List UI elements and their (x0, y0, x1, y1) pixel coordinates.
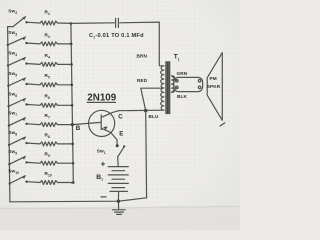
wire Sw10 to R10 (28, 181, 40, 184)
wire R10 to right bus (58, 182, 74, 184)
junction row 6 on right bus (71, 123, 74, 126)
resistor R5 (40, 83, 58, 87)
wire battery to bottom wire (117, 191, 119, 201)
transformer T1 core (165, 61, 170, 114)
wire base lead (from row 7 bus junction) (72, 122, 100, 124)
capacitor C1 (115, 18, 117, 27)
switch Sw5 blade (8, 78, 25, 86)
switch Sw7 blade (9, 118, 26, 126)
wire Sw2 to R2 (28, 21, 40, 24)
wire Sw5 to R5 (28, 83, 40, 86)
transistor emitter lead with arrow (102, 128, 117, 144)
wire Sw1 to battery (117, 157, 120, 167)
wire Sw7 to R7 (28, 123, 40, 126)
terminal right top (198, 80, 201, 83)
resistor R7 (40, 123, 58, 127)
wire Sw3 to R3 (28, 42, 40, 45)
resistor R2 (40, 21, 58, 25)
stray mark below speaker (220, 123, 225, 126)
junction switch Sw6 pivot on left bus (7, 105, 9, 107)
wire Sw6 to R6 (28, 104, 40, 107)
wire R3 to right bus (58, 43, 72, 45)
switch Sw2 blade (13, 17, 26, 27)
right resistor bus wire (71, 23, 73, 183)
svg-text:BRN: BRN (137, 54, 148, 59)
ground symbol (118, 201, 120, 209)
junction row 2 on right bus (70, 43, 73, 46)
switch Sw3 blade (8, 37, 26, 45)
junction row 9 on right bus (72, 181, 75, 184)
svg-text:BLU: BLU (149, 114, 159, 119)
wire R2 to right bus (58, 22, 71, 24)
transformer T1 secondary winding (172, 76, 175, 93)
wire R7 to right bus (58, 124, 73, 126)
wire R8 to right bus (58, 143, 73, 145)
transformer T1 primary winding (161, 66, 164, 110)
switch Sw5 contact (25, 83, 27, 85)
wire RED tap (141, 88, 162, 198)
left bus wire (8, 27, 10, 202)
junction switch Sw8 pivot on left bus (8, 144, 10, 146)
transistor base bar (100, 115, 102, 130)
battery B1 (108, 166, 128, 168)
speaker PM SPKR cone (207, 53, 222, 121)
switch Sw4 blade (8, 58, 25, 66)
switch Sw1 blade (118, 147, 124, 157)
switch Sw9 blade (9, 156, 25, 164)
junction switch Sw4 pivot on left bus (7, 64, 9, 66)
resistor R9 (40, 161, 58, 165)
switch Sw10 contact (25, 181, 27, 183)
underline 2N109 (87, 101, 116, 103)
junction row 8 on right bus (72, 162, 75, 165)
transistor collector lead (102, 111, 119, 118)
junction base lead on bus (71, 123, 74, 126)
wire R4 to right bus (58, 63, 72, 65)
switch Sw2 contact (25, 21, 27, 23)
svg-text:C1-0.01 TO 0.1 MFd: C1-0.01 TO 0.1 MFd (89, 33, 144, 39)
resistor R10 (40, 181, 58, 185)
switch Sw7 contact (25, 123, 27, 125)
speaker terminal block (174, 77, 203, 91)
wire Sw4 to R4 (28, 63, 40, 66)
switch Sw8 blade (9, 137, 25, 145)
wire secondary bottom (BLK) to terminal (172, 88, 177, 93)
svg-text:RED: RED (137, 78, 148, 83)
svg-text:C: C (118, 114, 123, 121)
switch Sw1 contact dot (116, 144, 119, 147)
junction switch Sw9 pivot on left bus (8, 163, 10, 165)
wire switch Sw2 stub (8, 26, 13, 28)
terminal right bottom (198, 86, 201, 89)
wire R6 to right bus (58, 104, 73, 106)
switch Sw4 contact (25, 62, 27, 64)
switch Sw8 contact (25, 142, 27, 144)
switch Sw6 contact (25, 103, 27, 105)
wire top bus to capacitor C1 (71, 22, 114, 25)
transistor Q1 2N109 body (89, 110, 115, 136)
switch Sw10 blade (10, 176, 26, 184)
svg-text:GRN: GRN (177, 71, 188, 76)
switch Sw6 blade (9, 99, 26, 107)
junction BLU lead and RED-tap wire (144, 109, 147, 112)
junction row 4 on right bus (71, 84, 74, 87)
bottom wire (10, 198, 147, 202)
svg-text:+: + (101, 159, 106, 168)
switch Sw3 contact (25, 42, 27, 44)
terminal left bottom (176, 86, 179, 89)
wire Sw9 to R9 (28, 161, 40, 164)
junction switch Sw5 pivot on left bus (7, 85, 9, 87)
switch Sw9 contact (25, 161, 27, 163)
wire secondary top (GRN) to terminal (172, 76, 177, 81)
svg-text:E: E (119, 130, 123, 137)
resistor R3 (40, 42, 58, 46)
junction row 1 on right bus (70, 22, 73, 25)
junction battery / bottom wire (117, 200, 120, 203)
terminal left top (176, 80, 179, 83)
svg-text:B: B (76, 125, 81, 132)
wire R5 to right bus (58, 84, 72, 86)
svg-text:SPKR: SPKR (207, 84, 221, 89)
wire Sw8 to R8 (28, 142, 40, 145)
label minus (101, 196, 106, 198)
junction switch Sw10 pivot on left bus (9, 182, 11, 184)
junction switch Sw7 pivot on left bus (8, 124, 10, 126)
resistor R6 (40, 103, 58, 107)
svg-text:BLK: BLK (177, 94, 187, 99)
junction row 5 on right bus (71, 104, 74, 107)
wire BLU lead to collector (119, 109, 164, 112)
junction switch Sw3 pivot on left bus (7, 44, 9, 46)
resistor R8 (40, 142, 58, 146)
junction row 3 on right bus (70, 63, 73, 66)
junction row 7 on right bus (71, 143, 74, 146)
svg-text:PM: PM (210, 76, 217, 81)
resistor R4 (40, 62, 58, 66)
wire R9 to right bus (58, 162, 74, 164)
wire capacitor to transformer primary (BRN lead) (120, 22, 164, 66)
